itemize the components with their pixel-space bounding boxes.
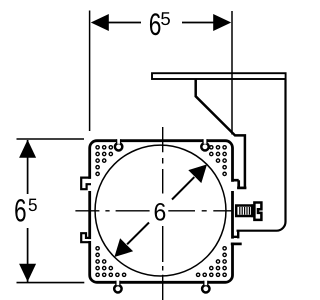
screw head <box>254 203 261 220</box>
diameter arrow line SW segment <box>127 223 149 245</box>
ear bottom left <box>114 285 121 292</box>
bracket right profile <box>237 80 286 231</box>
top dimension extension line right <box>231 11 233 135</box>
left dimension tick top <box>17 138 85 140</box>
screw shaft <box>236 206 252 217</box>
bracket flange foot <box>237 187 246 190</box>
top dimension label 6^5 <box>150 13 160 35</box>
top dimension arrow left <box>91 14 109 31</box>
diameter arrowhead SW <box>114 238 133 257</box>
diameter label 6 <box>155 203 166 221</box>
ear top right <box>201 143 208 150</box>
centerline horizontal <box>75 210 231 212</box>
box lower-right tab bar <box>231 243 242 246</box>
perforation dots top-right <box>210 146 227 176</box>
box edge gaps (white patches) <box>117 139 120 144</box>
right tab upper <box>232 180 239 188</box>
ear bottom right <box>202 285 209 292</box>
left dimension label 6^5 <box>15 199 25 222</box>
top dimension extension line left <box>89 11 91 132</box>
bracket hanger and diagonal <box>196 80 245 189</box>
perforation dots top-left <box>96 146 113 176</box>
left tab lower <box>81 233 91 242</box>
perforation dots bottom-left <box>96 247 126 277</box>
mounting plate top bar <box>152 73 286 79</box>
centerline vertical <box>162 127 164 300</box>
perforation dots bottom-right <box>196 247 226 277</box>
diameter arrow line NE segment <box>172 177 194 199</box>
ear top left <box>115 143 122 150</box>
bracket lower hook <box>232 230 239 239</box>
top dimension arrow right <box>213 14 231 31</box>
left dimension arrow up <box>19 140 36 158</box>
main circle <box>95 145 226 276</box>
diameter arrowhead NE <box>188 164 207 183</box>
function box outline <box>90 141 233 283</box>
left tab upper <box>81 178 91 190</box>
left dimension line <box>27 140 29 282</box>
left dimension tick bottom <box>17 282 85 284</box>
top dimension line <box>106 22 216 24</box>
left dimension arrow down <box>19 264 36 282</box>
